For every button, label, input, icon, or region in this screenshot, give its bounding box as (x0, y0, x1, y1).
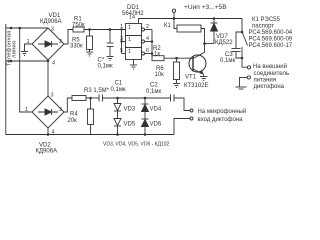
inverter DD1.2 (126, 36, 153, 48)
power out text (253, 63, 289, 90)
svg-text:VD4: VD4 (150, 107, 162, 113)
svg-text:VD5: VD5 (124, 122, 136, 128)
node dot input3 (120, 28, 122, 30)
C* label (98, 58, 113, 70)
svg-text:2: 2 (59, 39, 62, 45)
svg-text:0,1мк: 0,1мк (220, 58, 235, 64)
svg-text:4: 4 (146, 36, 149, 42)
node dot B1 (10, 60, 13, 63)
diode VD5 (114, 119, 121, 135)
svg-text:2: 2 (59, 107, 62, 113)
transistor Q1 VT1 (189, 52, 206, 74)
wire collector node to VD7 (205, 43, 215, 45)
wire contact to terminal (242, 47, 247, 67)
node dot VD4 bottom (144, 133, 147, 136)
wire line A (6, 27, 48, 29)
R1 label (72, 17, 85, 29)
ground below R6 (173, 84, 180, 88)
capacitor C1 (99, 95, 170, 102)
wire line B (6, 60, 48, 62)
resistor R2 (152, 56, 193, 61)
svg-text:диктофона: диктофона (254, 84, 285, 90)
bridge VD1 (32, 28, 64, 60)
node dot collector (203, 42, 206, 45)
mic text (198, 108, 247, 123)
svg-text:1: 1 (120, 24, 123, 30)
power rail (139, 18, 243, 20)
svg-text:10к: 10к (155, 72, 165, 78)
svg-text:R4: R4 (70, 112, 78, 118)
terminal power out 2 (247, 76, 250, 79)
svg-text:1: 1 (128, 25, 131, 31)
inverter DD1.3 (126, 48, 153, 60)
svg-text:0,1мк: 0,1мк (146, 89, 161, 95)
svg-text:14: 14 (129, 15, 135, 21)
node dot contact bottom (241, 57, 244, 60)
ground terminal 2 (236, 87, 247, 89)
bottom rail (48, 134, 174, 136)
R4 label (68, 112, 79, 125)
svg-text:0,1мк: 0,1мк (111, 87, 126, 93)
telephone line bus (6, 24, 48, 135)
svg-text:линия: линия (12, 41, 18, 58)
node dot VD4 top (144, 97, 147, 100)
terminal mic 2 (190, 117, 193, 120)
node dot R4 top (89, 97, 92, 100)
node dot VD3 bottom (116, 133, 119, 136)
node dot VD3 top (116, 97, 119, 100)
terminal mic 1 (190, 109, 193, 112)
svg-text:КД906А: КД906А (36, 149, 58, 155)
svg-text:К1 РЭС55: К1 РЭС55 (252, 17, 280, 23)
ground at emitter (200, 74, 208, 80)
svg-text:VD6: VD6 (150, 122, 162, 128)
resistor R4 (88, 98, 94, 135)
node dot R5 top (88, 28, 91, 31)
svg-text:0,1мк: 0,1мк (98, 64, 113, 70)
wire input stub 5 (122, 53, 126, 55)
node dot A2 (18, 27, 21, 30)
capacitor C3 (232, 32, 243, 58)
K1 type text (249, 17, 293, 49)
ground below C* (107, 57, 114, 61)
resistor R1 (64, 27, 126, 44)
wire VD1 pin4 to VD2 pin3 (47, 61, 49, 96)
telephone line label (6, 30, 17, 66)
svg-text:РС4.569.600-04: РС4.569.600-04 (249, 30, 293, 36)
R6 label (155, 66, 165, 78)
C1 label (111, 81, 126, 94)
svg-text:750к: 750к (72, 23, 85, 29)
VT1 label (184, 75, 209, 90)
node dot input5 (120, 40, 122, 42)
inverter DD1.1 (126, 24, 153, 36)
wire input stub 3 (122, 41, 126, 43)
ground below R5 (86, 52, 93, 56)
op-amp U1 DD1 input bus (121, 30, 123, 54)
svg-text:2: 2 (146, 24, 149, 30)
resistor R6 (174, 58, 180, 83)
wire line A to VD2 pin1 (20, 28, 32, 112)
node dot output6 (151, 52, 154, 55)
svg-text:+Uип +3...+5В: +Uип +3...+5В (184, 4, 227, 11)
power terminal +U (172, 9, 175, 18)
C2 label (146, 83, 161, 96)
svg-text:1к: 1к (154, 51, 160, 57)
svg-text:C1: C1 (115, 81, 123, 87)
diode VD6 (142, 119, 149, 135)
wire mic 2 (174, 119, 190, 135)
svg-text:КТ3102Е: КТ3102Е (184, 83, 209, 89)
svg-text:VD3: VD3 (124, 107, 136, 113)
svg-text:вход диктофона: вход диктофона (198, 117, 244, 123)
svg-text:20к: 20к (68, 118, 78, 124)
DD1 label (122, 5, 144, 17)
svg-text:КД522: КД522 (215, 40, 233, 46)
VD1 label (40, 13, 62, 25)
svg-text:3: 3 (120, 36, 123, 42)
svg-text:1: 1 (128, 37, 131, 43)
wire input stub 1 (122, 29, 126, 31)
wire VD2 pin4 to bottom rail (47, 128, 49, 135)
svg-text:РС4.569.600-09: РС4.569.600-09 (249, 37, 293, 43)
VD7 label (215, 34, 233, 46)
node dot VD2 pin4 rail (47, 133, 50, 136)
relay K1 coil (174, 19, 205, 44)
svg-text:паспорт: паспорт (252, 24, 274, 30)
node dot contact top (241, 31, 244, 34)
svg-text:3: 3 (51, 27, 54, 33)
node dot C* top (109, 28, 112, 31)
capacitor C2 (171, 95, 191, 111)
svg-text:VT1: VT1 (185, 75, 197, 81)
diode VD7 (211, 19, 218, 44)
wire pin14 stub (138, 19, 140, 24)
svg-text:4: 4 (52, 61, 55, 67)
svg-text:6: 6 (146, 48, 149, 54)
svg-text:C2: C2 (150, 83, 158, 89)
svg-text:VD3, VD4, VD5, VD6 - КД102: VD3, VD4, VD5, VD6 - КД102 (103, 142, 170, 148)
svg-text:1: 1 (25, 107, 28, 113)
svg-text:К1: К1 (164, 23, 171, 29)
capacitor C* (107, 30, 114, 57)
diode VD3 (114, 98, 121, 119)
resistor R5 (87, 30, 93, 53)
svg-text:КД906А: КД906А (40, 19, 62, 25)
wire collector (204, 44, 206, 53)
svg-text:330к: 330к (70, 44, 83, 50)
ground at VD1 pin1 (21, 44, 32, 56)
svg-text:1: 1 (128, 49, 131, 55)
svg-text:5: 5 (120, 48, 123, 54)
R2 label (153, 46, 161, 57)
svg-text:R3 1,5М*: R3 1,5М* (84, 88, 110, 94)
VD2 label (36, 143, 58, 155)
C3 label (220, 52, 235, 64)
svg-text:3: 3 (51, 93, 54, 99)
svg-text:РС4.569.600-17: РС4.569.600-17 (249, 43, 293, 49)
relay contact K1.1 (243, 33, 248, 46)
svg-text:На внешний: На внешний (253, 63, 287, 70)
terminal power out 1 (247, 66, 250, 69)
wire contact drop (241, 19, 243, 33)
node dot A1 (10, 27, 13, 30)
resistor R3 (64, 96, 99, 113)
node dot output4 (151, 40, 154, 43)
bridge VD2 (32, 96, 64, 128)
ground chip pin7 (130, 60, 137, 70)
node dot VD7 top (213, 17, 216, 20)
R5 label (70, 38, 83, 50)
node dot +U (173, 17, 176, 20)
svg-text:питания: питания (254, 78, 277, 84)
node dot R6 top (175, 57, 178, 60)
node dot VD1 pin4 (47, 60, 50, 63)
diode VD4 (142, 98, 149, 119)
svg-text:соединитель: соединитель (254, 71, 290, 77)
svg-text:На микрофонный: На микрофонный (198, 108, 247, 115)
wire terminal 2 down (240, 77, 248, 86)
output bus (151, 30, 153, 59)
